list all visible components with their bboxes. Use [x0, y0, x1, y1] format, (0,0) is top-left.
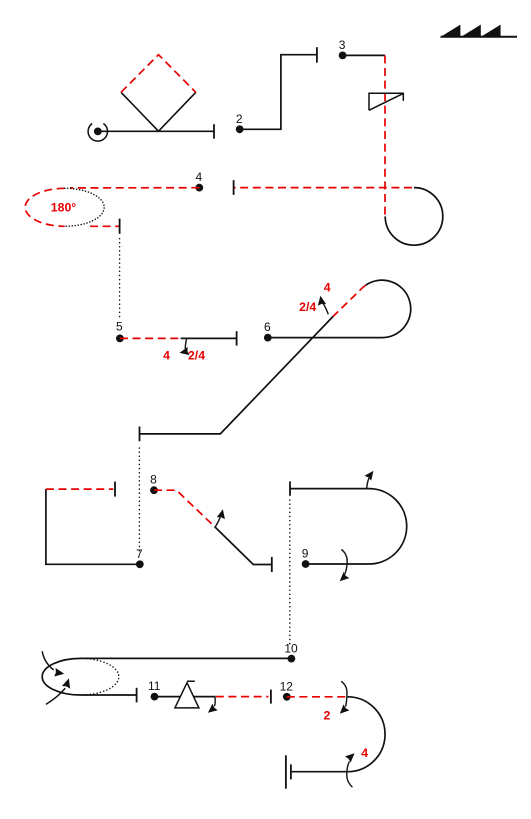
- figure 2 exit tick: [316, 47, 318, 62]
- figure 7 inverted exit line: [46, 488, 113, 490]
- figure 8 exit tick: [271, 557, 273, 572]
- figure 9 half loop: [369, 489, 407, 564]
- figure 1 exit tick: [213, 124, 215, 138]
- figure 4 entry line (inverted): [70, 187, 199, 189]
- figure 8 start dot: [150, 486, 158, 494]
- svg-text:8: 8: [150, 473, 157, 487]
- figure 1 diamond loop upper half (inverted): [121, 55, 196, 93]
- figure 6 exit tick: [139, 427, 141, 442]
- figure 12 half loop down: [348, 697, 385, 772]
- figure 12 half-roll arrow bottom: [347, 762, 353, 788]
- figure 12 exit line: [292, 771, 348, 773]
- figure 9 exit half-roll arrow: [367, 478, 369, 489]
- figure 6 start dot: [264, 334, 272, 342]
- svg-text:5: 5: [116, 319, 123, 333]
- figure 11 inverted exit line: [216, 696, 269, 698]
- connector figure 4 to 5: [119, 239, 121, 319]
- svg-text:2: 2: [323, 709, 330, 723]
- figure 10 exit tick: [136, 688, 138, 703]
- figure 12 start dot: [283, 693, 291, 701]
- figure 11 start dot: [151, 693, 159, 701]
- svg-text:4: 4: [163, 349, 170, 363]
- figure 12 inverted entry line: [287, 696, 348, 698]
- figure 5 upright exit line: [181, 337, 237, 339]
- figure 4 exit line: [90, 225, 120, 227]
- figure 3 loop: [385, 188, 443, 246]
- svg-text:180°: 180°: [51, 200, 77, 214]
- figure 4 180-degree turn, far half: [65, 188, 105, 226]
- svg-text:4: 4: [361, 746, 368, 760]
- figure 3 inverted exit line: [234, 187, 412, 189]
- svg-text:9: 9: [302, 547, 309, 561]
- figure 1 entry line: [98, 130, 214, 132]
- figure 2 flight path: [240, 55, 317, 130]
- figure 9 entry half-roll arrow: [341, 550, 347, 575]
- sequence end double tick: [286, 755, 291, 788]
- figure 8 roll arrow: [215, 517, 220, 527]
- connector figure 6 to 7: [138, 448, 140, 551]
- figure 10 entry line: [81, 657, 292, 659]
- figure 4 exit tick: [119, 219, 121, 234]
- figure 11 entry line: [155, 696, 181, 698]
- figure 3 start dot: [339, 52, 347, 60]
- figure 9 exit tick: [289, 481, 291, 495]
- figure 10 rolling turn near half: [42, 658, 80, 695]
- figure 9 start dot: [302, 560, 310, 568]
- figure 11 half-roll arrow: [214, 697, 217, 706]
- figure 9 exit line: [290, 488, 369, 490]
- figure 6 entry line: [268, 337, 382, 339]
- figure 10 rolling turn far half: [81, 658, 119, 695]
- svg-text:11: 11: [148, 679, 161, 693]
- figure 6 loop: [366, 280, 411, 338]
- figure 12 half-roll arrow top: [341, 681, 347, 706]
- wind direction symbol: [441, 25, 518, 37]
- figure 10 roll arrow lower: [46, 688, 65, 704]
- figure 7 start dot: [136, 560, 144, 568]
- figure 4 180-degree turn, near half: [25, 188, 65, 226]
- figure 5 exit tick: [236, 331, 238, 345]
- figure 5 start dot: [116, 335, 124, 343]
- figure 8 upright 45-degree down line: [215, 527, 272, 565]
- figure 3 exit tick: [233, 180, 235, 195]
- figure 1 start symbol: [88, 124, 107, 142]
- figure 7 exit tick: [114, 482, 116, 497]
- figure 11 exit tick: [270, 690, 272, 704]
- figure 5 roll arrow: [185, 339, 186, 350]
- svg-text:4: 4: [324, 281, 331, 295]
- figure 6 loop inverted part: [333, 285, 366, 316]
- svg-text:6: 6: [264, 320, 271, 334]
- figure 9 entry line: [306, 563, 369, 565]
- figure 3 spin symbol: [369, 93, 403, 110]
- svg-text:3: 3: [339, 38, 346, 52]
- figure 2 start dot: [236, 125, 244, 133]
- figure 6 roll arrow: [323, 303, 329, 315]
- svg-text:12: 12: [280, 679, 294, 693]
- svg-text:2/4: 2/4: [188, 349, 205, 363]
- figure 10 exit line: [81, 694, 137, 696]
- figure 10 start dot: [288, 655, 296, 663]
- figure 5 inverted entry line: [120, 337, 181, 339]
- figure 8 inverted entry and 45-degree down line: [154, 490, 215, 526]
- figure 11 mid line: [194, 696, 216, 698]
- figure 6 45-degree down line: [140, 317, 334, 434]
- svg-text:2/4: 2/4: [299, 300, 316, 314]
- svg-text:7: 7: [136, 547, 143, 561]
- figure 10 roll arrow upper: [42, 651, 53, 670]
- figure 4 start dot: [195, 184, 203, 192]
- figure 7 flight path: [46, 489, 140, 564]
- figure 3 entry line: [343, 54, 385, 56]
- svg-text:4: 4: [195, 170, 202, 184]
- figure 11 spin triangle: [175, 681, 199, 708]
- figure 1 diamond loop lower half: [121, 92, 196, 131]
- figure 3 inverted down line: [384, 55, 386, 215]
- svg-text:2: 2: [236, 112, 243, 126]
- connector figure 9 to 10: [289, 500, 291, 646]
- svg-text:10: 10: [284, 641, 298, 655]
